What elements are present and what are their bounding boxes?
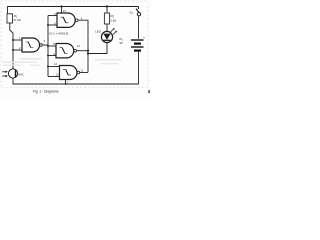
wire to gate4 pin 12 [48,66,60,68]
pin 14 stub [61,7,63,14]
resistor R1 [7,14,22,23]
svg-text:LED: LED [95,29,101,33]
wire to gate3 pin 9 [48,55,56,57]
gate IC1d (pins 12,13 -> 11) [60,66,80,80]
node gate3 pin9 [47,55,49,57]
wire to gate3 pin 8 [48,45,56,47]
scan noise smudges [2,58,121,66]
wire rail to R2 [106,7,108,14]
node gate3 pin8 [47,45,49,47]
node R2 on rail [106,5,108,7]
pin 7 stub [65,80,67,85]
wire top supply rail [8,6,139,8]
node LED branch junction [87,52,89,54]
wire mic to bus (joins R1 lead) [12,50,14,64]
svg-text:Fig. 1 - Diagrama: Fig. 1 - Diagrama [33,89,59,93]
svg-text:MIC: MIC [19,73,24,77]
svg-text:9V: 9V [120,41,124,45]
wire gate4 output to out bus [80,72,88,74]
node gate2 input b [12,49,14,51]
svg-text:1 kΩ: 1 kΩ [110,18,117,22]
battery B1 9V [131,36,145,50]
wire to gate1 pin 6 [48,24,57,26]
gate IC1c (pins 8,9 -> 10) [56,44,76,58]
svg-text:CI-1 = 4093 B: CI-1 = 4093 B [49,32,68,36]
wire switch to battery [138,17,140,39]
wire bottom ground rail [13,83,139,85]
border frame (dashed) [1,1,148,88]
node gate1 pin6 [47,24,49,26]
node gate2 input a [12,39,14,41]
node gate4 pin12 [47,66,49,68]
svg-text:+: + [143,36,145,40]
resistor R2 [104,13,117,24]
wire to pin 2 [13,49,22,51]
wire R1 bottom to input bus [10,23,13,69]
wire to gate4 pin 13 [48,76,60,78]
wire to gate1 pin 5 [48,15,57,17]
wire input bus x48 [47,16,49,77]
wire left drop to R1 [7,6,9,14]
page mark bottom right [148,90,150,93]
switch S1 [136,7,141,16]
wire bus to LED cathode [88,43,107,54]
wire gate1 output to out bus [78,20,88,72]
node gate3 out junction [87,50,89,52]
microphone MIC [2,64,17,84]
gate IC1a (pins 1,2 -> 3) [22,38,42,52]
svg-text:47 kΩ: 47 kΩ [13,18,21,22]
wire battery to bottom rail [138,52,140,84]
node pin14 on rail [60,5,62,7]
wire rail corner to switch [138,7,140,10]
gate IC1b (pins 5,6 -> 4) top [57,13,78,27]
wire gate2 output to bus [42,44,48,46]
wire gate3 output to out bus [77,50,89,52]
wire R2 to LED [106,24,108,32]
LED [101,28,117,43]
wire to pin 1 [13,39,22,41]
